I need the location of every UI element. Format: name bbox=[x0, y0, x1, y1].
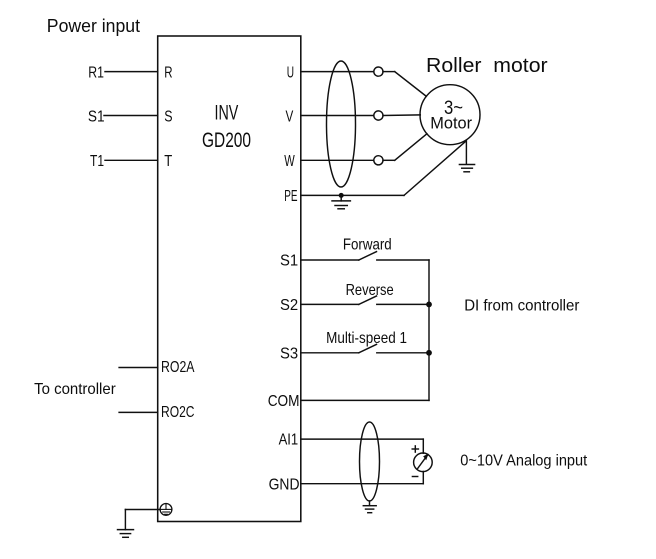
svg-text:Roller motor: Roller motor bbox=[426, 55, 548, 77]
svg-text:INV: INV bbox=[215, 101, 239, 124]
svg-text:S2: S2 bbox=[280, 297, 298, 314]
svg-text:S1: S1 bbox=[280, 253, 298, 270]
svg-text:To controller: To controller bbox=[34, 381, 116, 398]
svg-text:COM: COM bbox=[268, 393, 300, 410]
svg-text:AI1: AI1 bbox=[279, 432, 299, 449]
svg-text:Forward: Forward bbox=[343, 237, 392, 254]
svg-text:V: V bbox=[286, 108, 294, 125]
svg-text:S1: S1 bbox=[88, 108, 105, 125]
svg-text:W: W bbox=[284, 153, 295, 170]
svg-text:Multi-speed 1: Multi-speed 1 bbox=[326, 330, 407, 347]
svg-text:U: U bbox=[287, 64, 294, 81]
svg-text:RO2A: RO2A bbox=[161, 359, 195, 376]
svg-text:S3: S3 bbox=[280, 345, 298, 362]
svg-text:R: R bbox=[164, 64, 172, 81]
svg-text:GD200: GD200 bbox=[202, 129, 251, 152]
svg-text:Reverse: Reverse bbox=[346, 282, 394, 299]
svg-text:GND: GND bbox=[269, 476, 300, 493]
svg-text:R1: R1 bbox=[88, 64, 104, 81]
svg-text:T1: T1 bbox=[90, 153, 104, 170]
svg-text:Power input: Power input bbox=[47, 15, 140, 36]
svg-text:T: T bbox=[164, 153, 172, 170]
svg-text:S: S bbox=[164, 108, 172, 125]
svg-text:Motor: Motor bbox=[430, 113, 472, 132]
svg-text:PE: PE bbox=[284, 188, 297, 205]
svg-text:0~10V Analog input: 0~10V Analog input bbox=[460, 452, 587, 469]
svg-text:DI from controller: DI from controller bbox=[464, 298, 580, 315]
svg-text:RO2C: RO2C bbox=[161, 404, 195, 421]
